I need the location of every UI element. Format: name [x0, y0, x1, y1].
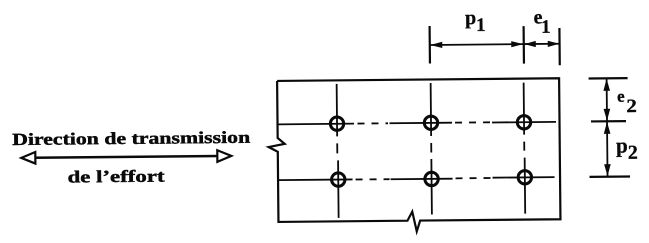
centerline row1 dashed between hole1 and hole2	[358, 122, 388, 124]
svg-text:Direction de transmission: Direction de transmission	[12, 128, 251, 149]
centerline row2 solid through hole6	[493, 176, 555, 179]
dimension line p1	[430, 43, 523, 46]
open arrowhead right	[217, 150, 231, 162]
centerline col2 vertical solid through hole5	[430, 159, 433, 214]
svg-text:1: 1	[476, 15, 486, 36]
centerline row1 solid through hole1	[278, 123, 354, 126]
svg-text:p: p	[616, 133, 628, 157]
centerline col1 vertical solid through hole1	[336, 84, 339, 136]
centerline col1 vertical dash between rows	[336, 143, 338, 153]
centerline row1 dashed between hole2 and hole3	[455, 121, 490, 123]
svg-text:2: 2	[628, 142, 638, 164]
right tick top (plate top edge level)	[589, 77, 628, 80]
right tick bottom (row2 level)	[590, 175, 630, 178]
centerline col3 vertical solid through hole3	[523, 83, 525, 135]
centerline row1 solid through hole2	[390, 122, 452, 125]
open arrowhead left	[21, 152, 35, 164]
centerline col2 vertical dash between rows	[430, 143, 432, 152]
extension tick at col3 for p1/e1	[522, 26, 525, 63]
hole row1 col3	[517, 116, 531, 130]
svg-text:e: e	[617, 87, 625, 106]
hole row2 col1	[331, 173, 345, 187]
centerline col3 vertical solid through hole6	[524, 158, 527, 214]
centerline row1 solid through hole3	[492, 121, 556, 124]
arrowhead e1 right	[548, 41, 560, 47]
right tick middle (row1 level)	[591, 120, 626, 123]
arrowhead p1 right	[511, 41, 523, 47]
arrowhead p2 up	[604, 122, 611, 134]
centerline col1 vertical solid through hole4	[337, 160, 340, 217]
arrowhead e1 left	[524, 41, 536, 47]
arrowhead p2 down	[604, 164, 611, 176]
arrowhead p1 left	[430, 42, 442, 48]
svg-text:p: p	[465, 7, 476, 29]
centerline col2 vertical solid through hole2	[430, 83, 433, 136]
svg-text:de l’effort: de l’effort	[67, 167, 165, 187]
svg-text:2: 2	[626, 96, 637, 117]
hole row1 col1	[330, 117, 344, 131]
arrowhead e2 down	[604, 109, 611, 121]
centerline row2 dashed between hole5 and hole6	[456, 177, 491, 179]
centerline row2 solid through hole5	[391, 178, 453, 181]
plate outline with left-edge break and bottom-edge break	[268, 78, 561, 233]
centerline col3 vertical dash between rows	[523, 142, 525, 151]
hole row2 col3	[518, 171, 532, 185]
centerline row2 dashed between hole4 and hole5	[356, 178, 390, 180]
right dimension vertical line	[606, 78, 609, 176]
extension tick at col2 for p1	[428, 26, 431, 63]
hole row2 col2	[425, 172, 439, 186]
extension tick at plate edge for e1	[558, 28, 561, 65]
arrowhead e2 up	[603, 79, 610, 91]
hole row1 col2	[424, 116, 438, 130]
svg-text:1: 1	[541, 17, 551, 38]
centerline row2 solid through hole4	[278, 178, 352, 181]
force direction double arrow line	[33, 156, 219, 158]
dimension line e1	[524, 43, 559, 45]
